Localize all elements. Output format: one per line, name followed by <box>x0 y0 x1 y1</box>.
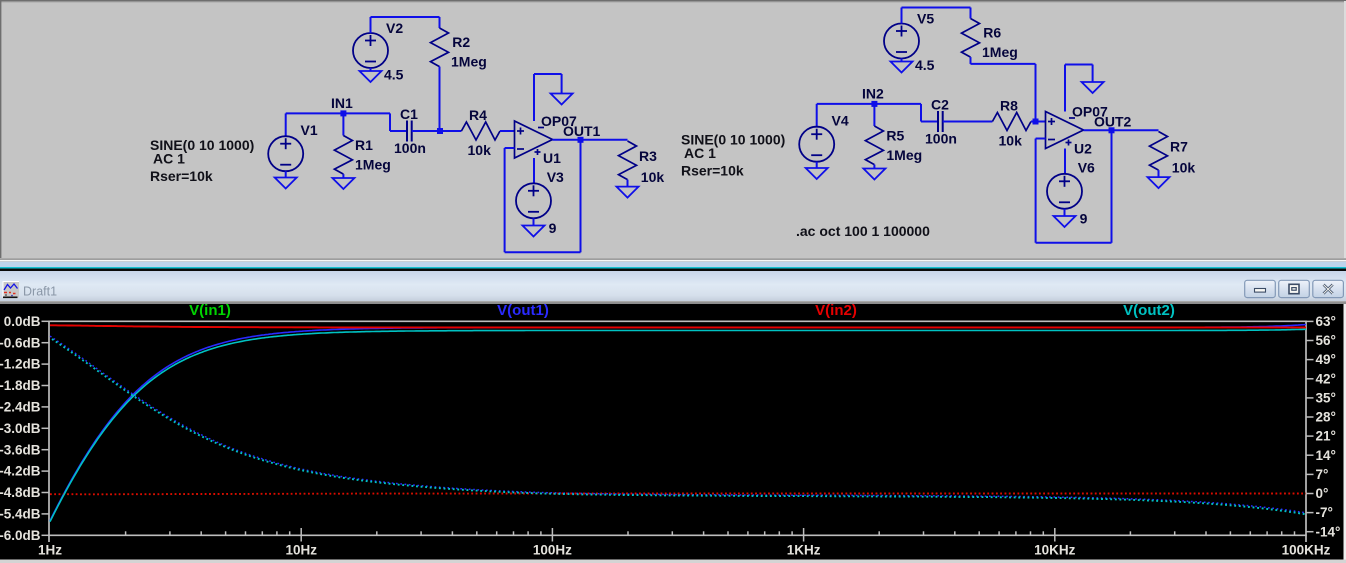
svg-text:OUT1: OUT1 <box>563 123 601 139</box>
wire V4 top lead <box>816 104 818 127</box>
wire down to input node <box>1035 64 1037 122</box>
resistor R7 <box>1150 132 1168 171</box>
waveform window icon <box>3 281 20 298</box>
svg-text:R6: R6 <box>983 25 1001 41</box>
wire feedback 2 to inverting input <box>1036 138 1046 140</box>
ground under V2 <box>360 71 382 82</box>
voltage source V2 <box>353 33 388 68</box>
svg-text:7°: 7° <box>1316 467 1329 482</box>
plot axes box <box>48 321 1307 543</box>
wire V4 to ground <box>816 162 818 168</box>
node OUT2 junction <box>1109 127 1115 133</box>
svg-text:V(out2): V(out2) <box>1123 302 1175 319</box>
ground under R7 <box>1148 177 1170 188</box>
trace V(in1) magnitude (green, under red) <box>50 325 1306 327</box>
wire to ground jog <box>534 73 562 75</box>
wire IN1 to C1 level <box>389 113 391 131</box>
wire feedback down <box>580 140 582 253</box>
wire R6 bottom lead <box>970 57 972 64</box>
svg-text:10Hz: 10Hz <box>285 543 317 558</box>
svg-text:10KHz: 10KHz <box>1034 543 1076 558</box>
voltage source V4 <box>799 127 834 162</box>
svg-text:100n: 100n <box>925 131 957 147</box>
trace V(in2) magnitude red <box>50 325 1306 327</box>
wire R5 to ground <box>873 165 875 169</box>
svg-text:100n: 100n <box>394 140 426 156</box>
wire V5 to R6 top <box>902 7 971 9</box>
op-amp U2 <box>1046 112 1084 149</box>
trace V(in1) phase dotted green (under red) <box>50 493 1306 496</box>
svg-text:-14°: -14° <box>1316 524 1341 539</box>
resistor R3 <box>619 141 637 180</box>
svg-text:0°: 0° <box>1316 486 1329 501</box>
ground op-amp U1 supply <box>551 94 573 105</box>
svg-text:1Meg: 1Meg <box>886 147 922 163</box>
svg-text:-5.4dB: -5.4dB <box>0 507 41 522</box>
ground op-amp U2 supply <box>1082 82 1104 93</box>
ground under V6 <box>1054 216 1076 227</box>
svg-text:1Meg: 1Meg <box>982 44 1018 60</box>
wire to C2 left plate <box>921 121 938 123</box>
svg-text:V6: V6 <box>1078 160 1095 176</box>
svg-text:-7°: -7° <box>1316 505 1333 520</box>
trace V(in2) phase dotted red <box>50 493 1306 496</box>
wire IN2 to R5 <box>873 104 875 126</box>
ground under R1 <box>332 178 354 189</box>
svg-text:V3: V3 <box>547 169 564 185</box>
svg-text:R8: R8 <box>1000 98 1018 114</box>
ground under R3 <box>617 187 639 198</box>
plot black background <box>0 304 1344 560</box>
wire feedback up <box>504 148 506 252</box>
voltage source V5 <box>884 24 919 59</box>
svg-text:10k: 10k <box>641 169 665 185</box>
svg-text:49°: 49° <box>1316 352 1336 367</box>
right phase axis ticks and labels <box>1307 321 1314 531</box>
svg-text:9: 9 <box>549 220 557 236</box>
trace legend <box>189 302 1175 319</box>
svg-text:0.0dB: 0.0dB <box>4 314 41 329</box>
svg-text:R2: R2 <box>452 34 470 50</box>
wire U1 V- pin to V3 <box>533 158 535 183</box>
wire feedback 2 down <box>1111 130 1113 243</box>
node IN1 junction <box>340 110 346 116</box>
node IN2 junction <box>871 101 877 107</box>
svg-text:U2: U2 <box>1074 141 1092 157</box>
svg-text:-2.4dB: -2.4dB <box>0 400 41 415</box>
resistor R4 <box>461 122 500 140</box>
wire V3 to ground <box>533 218 535 225</box>
op-amp U1 <box>515 121 553 158</box>
trace V(out2) phase dotted teal <box>50 338 1306 515</box>
node R6-R8 input junction <box>1033 119 1039 125</box>
wire R6 top lead <box>970 8 972 19</box>
ground under V4 <box>806 168 828 179</box>
wire R2 top lead <box>439 17 441 28</box>
svg-text:C1: C1 <box>400 106 418 122</box>
wire C2 to R8 <box>943 121 993 123</box>
wire IN1 to R1 <box>342 113 344 135</box>
wire U2 V- pin to V6 <box>1064 149 1066 174</box>
wire V2 to R2 top <box>371 16 440 18</box>
ground under V5 <box>891 62 913 73</box>
svg-text:1Hz: 1Hz <box>38 543 62 558</box>
svg-text:-3.6dB: -3.6dB <box>0 442 41 457</box>
ground under V1 <box>275 178 297 189</box>
left dB axis ticks and labels <box>42 321 49 535</box>
wire IN1 net <box>286 112 390 114</box>
resistor R5 <box>865 126 883 165</box>
svg-text:-1.2dB: -1.2dB <box>0 357 41 372</box>
resistor R2 <box>431 28 449 67</box>
svg-text:21°: 21° <box>1316 429 1336 444</box>
svg-text:4.5: 4.5 <box>915 57 935 73</box>
svg-text:V(out1): V(out1) <box>497 302 549 319</box>
svg-text:28°: 28° <box>1316 410 1336 425</box>
svg-text:42°: 42° <box>1316 371 1336 386</box>
node OUT1 junction <box>578 137 584 143</box>
wire feedback 2 up <box>1035 139 1037 243</box>
wire V6 to ground <box>1064 209 1066 216</box>
ground under V3 <box>523 226 545 237</box>
frequency axis labels <box>38 543 1331 558</box>
svg-text:Rser=10k: Rser=10k <box>681 163 744 179</box>
svg-text:14°: 14° <box>1316 448 1336 463</box>
wire down to ground 2 <box>1092 65 1094 83</box>
frequency axis ticks <box>126 528 1295 542</box>
wire V2 top lead <box>370 17 372 33</box>
svg-text:R5: R5 <box>886 128 904 144</box>
svg-text:1Meg: 1Meg <box>451 54 487 70</box>
window buttons <box>1245 280 1276 297</box>
svg-text:100KHz: 100KHz <box>1282 543 1331 558</box>
trace V(out1) phase dotted blue <box>50 336 1306 513</box>
svg-text:Rser=10k: Rser=10k <box>150 168 213 184</box>
svg-text:R3: R3 <box>639 148 657 164</box>
voltage source V6 <box>1047 174 1082 209</box>
svg-text:V(in1): V(in1) <box>189 302 231 319</box>
voltage source V1 <box>268 136 303 171</box>
svg-text:-4.8dB: -4.8dB <box>0 485 41 500</box>
schematic pane background <box>0 0 1346 259</box>
wire V1 to ground <box>285 171 287 177</box>
resistor R1 <box>334 136 352 175</box>
svg-text:R1: R1 <box>355 137 373 153</box>
svg-text:R7: R7 <box>1170 139 1188 155</box>
svg-text:10k: 10k <box>1172 160 1196 176</box>
wire U2 output to R7 <box>1084 129 1159 131</box>
ground under R5 <box>863 169 885 180</box>
svg-text:-1.8dB: -1.8dB <box>0 378 41 393</box>
svg-text:OUT2: OUT2 <box>1094 114 1132 130</box>
wire IN2 net <box>817 103 921 105</box>
svg-text:63°: 63° <box>1316 314 1336 329</box>
voltage source V3 <box>516 183 551 218</box>
wire R1 to ground <box>342 174 344 178</box>
wire V2 to ground <box>370 68 372 71</box>
trace V(out2) magnitude teal <box>50 329 1306 521</box>
node C1-R2-R4 junction <box>437 128 443 134</box>
wire down to ground <box>561 74 563 94</box>
svg-text:AC 1: AC 1 <box>684 145 716 161</box>
svg-text:-4.2dB: -4.2dB <box>0 464 41 479</box>
svg-text:.ac oct 100 1 100000: .ac oct 100 1 100000 <box>796 223 930 239</box>
wire V5 to ground <box>901 59 903 62</box>
svg-text:C2: C2 <box>931 97 949 113</box>
svg-text:100Hz: 100Hz <box>533 543 572 558</box>
wire R2 to junction <box>439 67 441 131</box>
svg-text:-6.0dB: -6.0dB <box>0 528 41 543</box>
wire to C1 left plate <box>390 130 407 132</box>
svg-text:V4: V4 <box>832 113 849 129</box>
wire U1 output to R3 <box>553 139 628 141</box>
wire feedback bottom <box>505 251 581 253</box>
svg-text:V1: V1 <box>301 122 318 138</box>
wire R3 to ground <box>627 180 629 187</box>
svg-text:10k: 10k <box>999 133 1023 149</box>
wire V5 top lead <box>901 8 903 24</box>
svg-text:9: 9 <box>1080 211 1088 227</box>
svg-text:IN2: IN2 <box>862 86 884 102</box>
svg-text:IN1: IN1 <box>331 95 353 111</box>
wire U2 V+ pin up <box>1064 65 1066 112</box>
svg-text:U1: U1 <box>543 150 561 166</box>
wire feedback 2 bottom <box>1036 242 1112 244</box>
svg-text:AC 1: AC 1 <box>153 151 185 167</box>
svg-text:-0.6dB: -0.6dB <box>0 335 41 350</box>
wire R7 to ground <box>1158 170 1160 177</box>
svg-text:V5: V5 <box>917 11 934 27</box>
wire R8 to op-amp input <box>1031 121 1046 123</box>
resistor R6 <box>962 19 980 58</box>
svg-text:10k: 10k <box>468 142 492 158</box>
svg-text:4.5: 4.5 <box>384 67 404 83</box>
wire R4 to op-amp input <box>500 130 515 132</box>
svg-text:1Meg: 1Meg <box>355 157 391 173</box>
capacitor C1 <box>407 121 412 142</box>
wire to ground jog 2 <box>1065 64 1093 66</box>
svg-text:V2: V2 <box>386 20 403 36</box>
trace V(out1) magnitude blue <box>50 325 1306 521</box>
capacitor C2 <box>938 111 943 132</box>
svg-text:56°: 56° <box>1316 333 1336 348</box>
wire V1 top lead <box>285 113 287 136</box>
svg-text:Draft1: Draft1 <box>23 285 57 299</box>
svg-text:35°: 35° <box>1316 391 1336 406</box>
svg-text:R4: R4 <box>469 107 487 123</box>
resistor R8 <box>992 113 1031 131</box>
wire U1 V+ pin up <box>533 74 535 121</box>
svg-text:1KHz: 1KHz <box>787 543 821 558</box>
wire C1 to R4 <box>412 130 462 132</box>
separator rows between panes <box>0 259 1346 260</box>
wire R6 to op-amp column <box>971 63 1036 65</box>
svg-text:V(in2): V(in2) <box>815 302 857 319</box>
wire feedback to inverting input <box>505 147 515 149</box>
waveform window title bar <box>0 271 1346 301</box>
wire IN2 to C2 level <box>920 104 922 122</box>
svg-text:-3.0dB: -3.0dB <box>0 421 41 436</box>
